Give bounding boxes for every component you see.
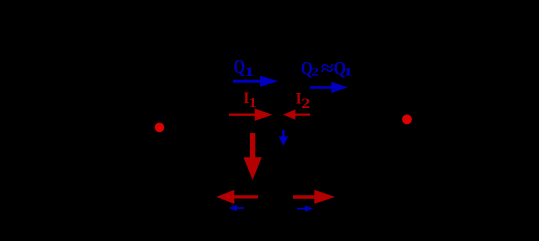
battery V1 [82,95,98,210]
node right terminal dot [402,115,412,125]
svg-text:2: 2 [301,94,310,111]
svg-text:2: 2 [312,65,320,78]
arrow Q1 charge flow [233,76,279,87]
node left terminal dot [155,123,165,133]
arrow return current left [229,205,244,211]
wire: top conductor from capacitor to right loop [286,94,450,96]
arrow return current right [297,205,313,211]
svg-text:1: 1 [244,65,254,79]
svg-text:1: 1 [249,95,257,110]
arrow surface current left [216,190,258,204]
svg-text:1: 1 [343,66,353,79]
arrow main current downward [244,133,262,180]
arrow Q2 charge flow [310,82,348,93]
capacitor C1 plate left [267,78,269,112]
arrow I2 conduction current [283,109,310,119]
arrow I1 conduction current [229,109,272,121]
capacitor C1 plate right [285,78,287,112]
wire: top conductor from source to capacitor [90,94,268,96]
arrow surface current right [293,190,335,204]
svg-text:≈: ≈ [321,56,334,79]
ground plane [150,184,390,186]
wire: right loop return [90,95,450,210]
arrow displacement current downward [279,130,289,146]
